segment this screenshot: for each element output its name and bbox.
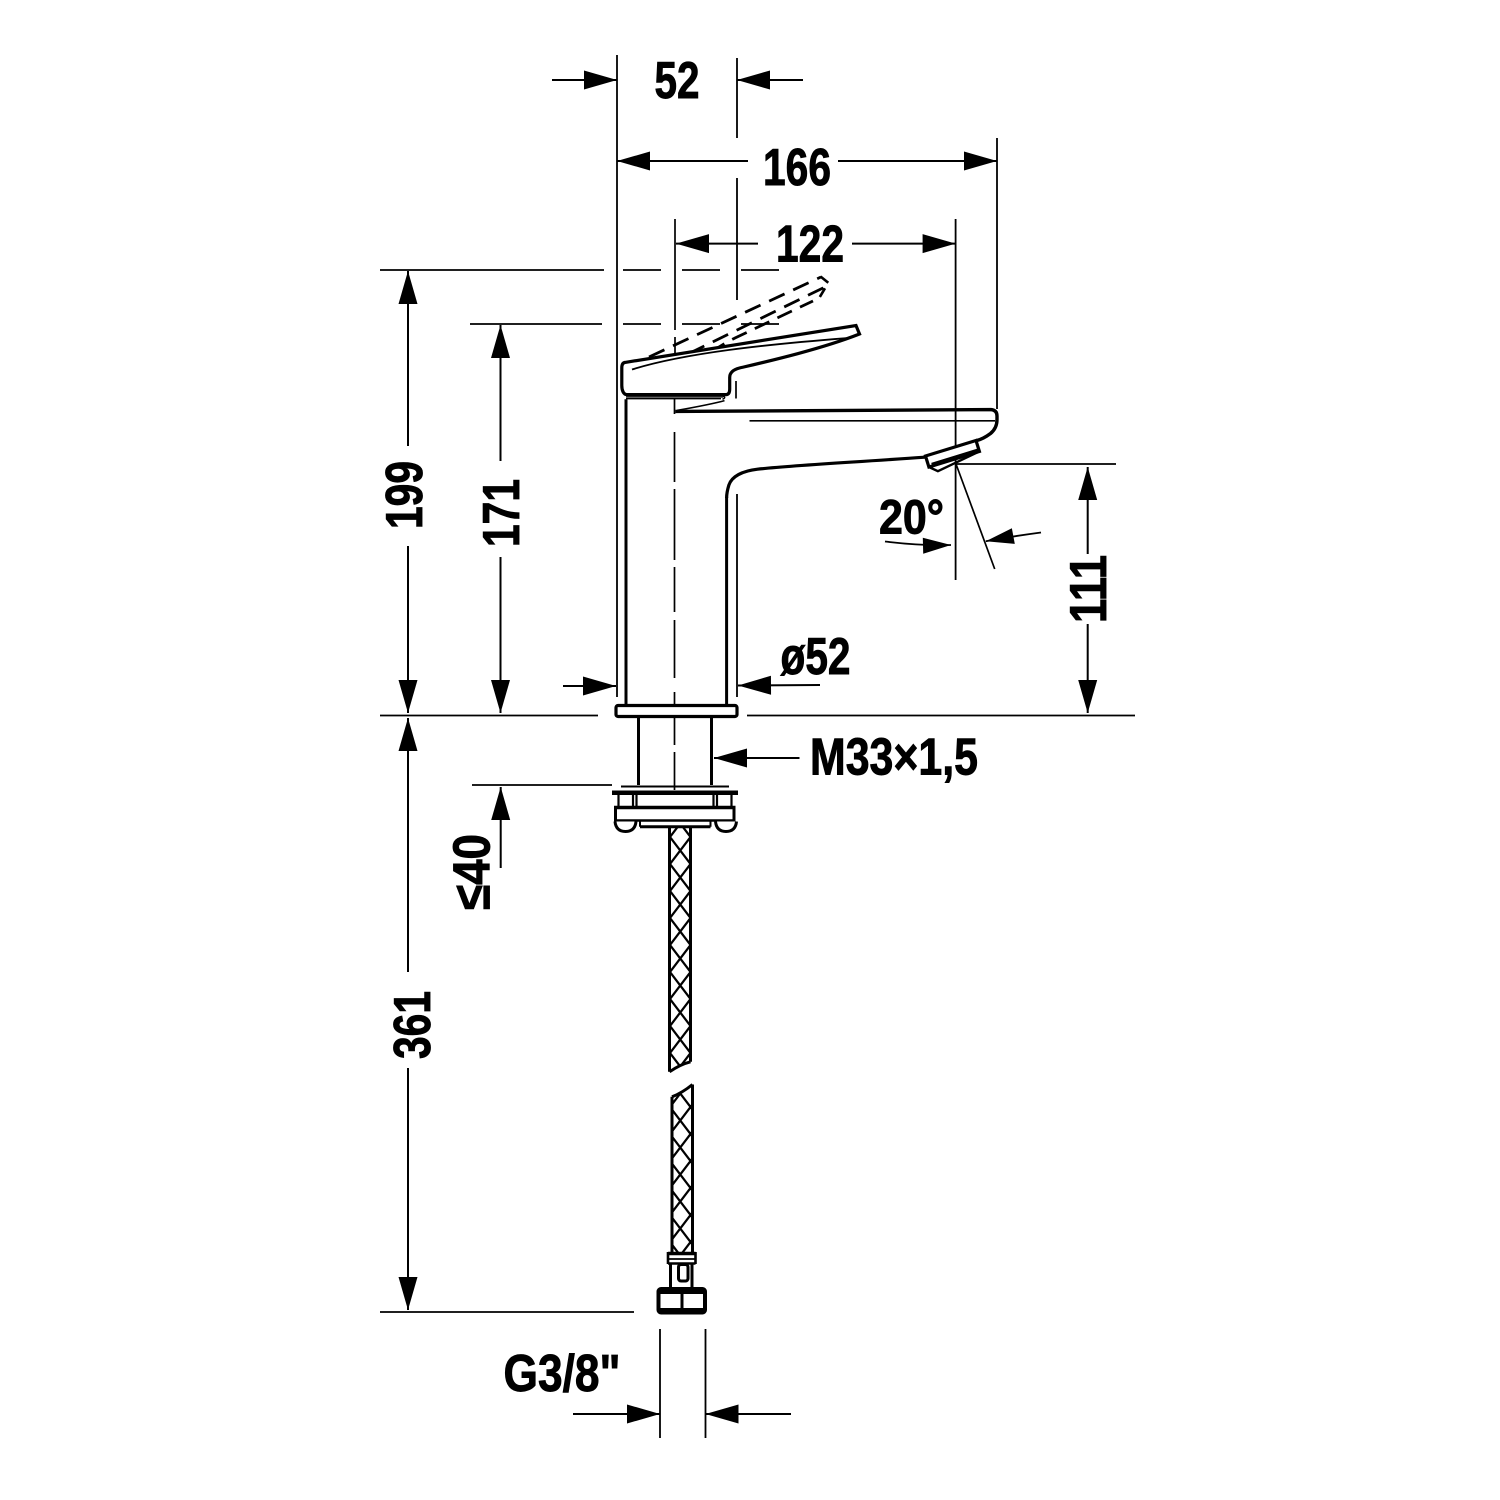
dim 166 [617,160,748,162]
dim G3/8 [573,1413,660,1415]
extension line x997 (166 right) [996,138,998,409]
361 bottom line y1310.5 [380,1311,634,1313]
dim 111 [1087,467,1089,554]
handle lever solid [622,326,860,395]
centerline x676 [674,219,677,790]
washer [621,786,729,788]
svg-text:ø52: ø52 [781,628,851,686]
svg-text:166: 166 [763,139,831,197]
lever dashed raised position line3 [711,301,813,353]
base plate [616,706,737,717]
nut lobes [615,822,636,832]
shank [639,717,712,785]
svg-text:G3/8": G3/8" [504,1345,621,1403]
spout top surface wedge [677,401,725,411]
deck line y715.5 [380,715,1135,717]
svg-text:M33×1,5: M33×1,5 [810,729,978,787]
dim 122 [676,243,758,245]
cap under lever [626,397,723,399]
dim 20deg arc arrows [885,542,951,546]
spout inner top line [750,420,996,422]
dim 52 [552,79,617,81]
dim le40 [500,787,502,868]
extension line x955.6 (122 right / 20deg vertical) [955,219,957,580]
aerator [926,441,980,468]
dim o52 [563,685,616,687]
ferrule [668,1252,696,1256]
extension line left x617 [616,55,618,697]
extension line y785 (40 top) [472,784,612,786]
hex nut [659,1289,706,1313]
hose segment 2 [672,1085,693,1253]
20deg slant line [956,464,995,569]
lever dashed tip face [817,277,829,303]
flange [612,791,738,796]
lever dashed raised position line1 [649,277,821,357]
dim 361 [407,718,409,972]
extension line y464 (111 top) [956,463,1116,465]
lever inner line [632,338,847,369]
G3/8 extension lines [660,1329,706,1438]
body left edge [625,399,628,705]
lever dashed raised position line2 [689,287,825,354]
svg-text:199: 199 [376,461,434,529]
spout underside [727,457,925,498]
svg-text:≤40: ≤40 [444,834,502,910]
svg-text:361: 361 [384,991,442,1059]
svg-text:111: 111 [1060,555,1118,623]
svg-text:52: 52 [655,52,700,110]
svg-text:171: 171 [473,479,531,547]
nut inner bottom [640,822,711,827]
svg-text:122: 122 [776,216,844,274]
svg-text:20°: 20° [879,492,944,545]
fitting body [671,1264,693,1288]
neck secondary line [735,381,737,399]
mounting nut [614,806,736,810]
extension line right x737 (52 width) [736,58,738,697]
extension line y270 (199 top) [380,269,604,271]
dim 171 [500,325,502,461]
dim M33x1,5 [714,757,800,759]
extension line y324 (171 top) [470,323,602,325]
hose segment 1 [670,827,691,1072]
spout top edge [675,410,997,441]
body right edge [725,497,728,706]
bracket tabs [619,795,732,806]
dim 199 [407,271,409,446]
